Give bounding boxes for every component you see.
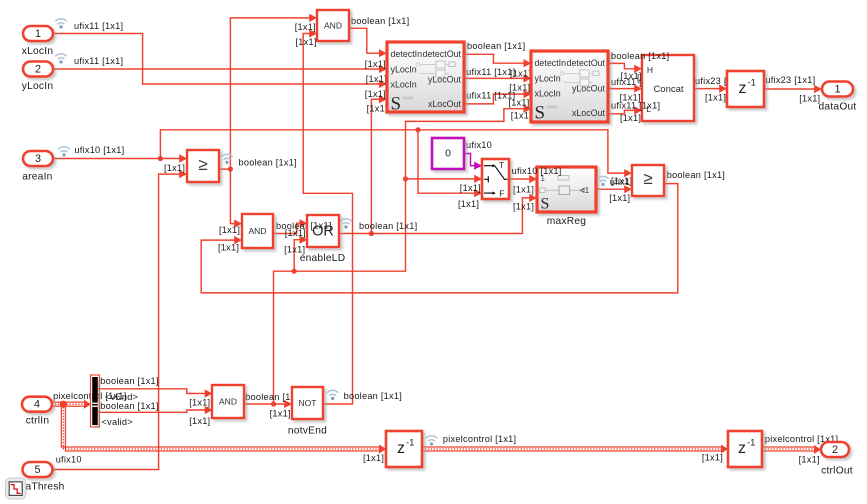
svg-text:H: H <box>647 65 653 75</box>
svg-text:xLocIn: xLocIn <box>22 46 54 57</box>
svg-text:boolean [1x1]: boolean [1x1] <box>100 401 158 411</box>
svg-text:[1x1]: [1x1] <box>513 185 534 195</box>
svg-text:[1x1]: [1x1] <box>511 111 532 121</box>
svg-text:boolean [1x1]: boolean [1x1] <box>467 41 525 51</box>
svg-text:dataOut: dataOut <box>819 102 857 113</box>
svg-text:detectOut: detectOut <box>423 49 462 59</box>
svg-text:ufix23 [1x1]: ufix23 [1x1] <box>765 75 815 85</box>
svg-text:[1x1]: [1x1] <box>219 225 240 235</box>
svg-text:ufix10 [1x1]: ufix10 [1x1] <box>512 166 562 176</box>
svg-text:-1: -1 <box>748 78 756 89</box>
svg-text:ufix11 [1x1]: ufix11 [1x1] <box>466 67 515 77</box>
svg-text:F: F <box>499 189 504 199</box>
svg-text:[1x1]: [1x1] <box>460 183 481 193</box>
svg-text:ctrlIn: ctrlIn <box>26 416 50 427</box>
svg-text:[1x1]: [1x1] <box>510 69 531 79</box>
svg-text:<valid>: <valid> <box>102 417 133 427</box>
svg-text:pixelcontrol [1x1]: pixelcontrol [1x1] <box>443 434 516 444</box>
svg-text:z: z <box>739 80 747 97</box>
svg-text:[1x1]: [1x1] <box>609 193 630 203</box>
svg-text:notvEnd: notvEnd <box>288 426 327 437</box>
svg-text:0: 0 <box>445 148 451 160</box>
svg-text:yLocIn: yLocIn <box>535 74 561 84</box>
svg-text:AND: AND <box>249 226 267 236</box>
svg-text:3: 3 <box>35 153 41 165</box>
svg-text:4: 4 <box>34 399 40 411</box>
svg-text:-1: -1 <box>747 438 755 449</box>
svg-text:[1x1]: [1x1] <box>620 113 641 123</box>
svg-text:-1: -1 <box>406 438 414 449</box>
svg-text:[1x1]: [1x1] <box>189 416 210 426</box>
svg-text:detectIn: detectIn <box>535 58 567 68</box>
svg-text:AND: AND <box>219 397 237 407</box>
svg-text:1: 1 <box>834 84 840 96</box>
svg-text:≥: ≥ <box>198 155 207 174</box>
svg-text:S: S <box>541 196 550 213</box>
svg-text:boolean [1x1]: boolean [1x1] <box>344 391 402 401</box>
svg-text:[1x1]: [1x1] <box>508 98 529 108</box>
svg-text:[1x1]: [1x1] <box>705 93 726 103</box>
svg-text:[1x1]: [1x1] <box>285 228 306 238</box>
svg-text:boolean [1x1]: boolean [1x1] <box>611 51 669 61</box>
svg-text:[1x1]: [1x1] <box>366 74 387 84</box>
svg-text:ufix10 [1x1]: ufix10 [1x1] <box>74 145 124 155</box>
svg-text:2: 2 <box>35 64 41 76</box>
svg-text:enableLD: enableLD <box>300 253 346 264</box>
svg-text:[1x1]: [1x1] <box>311 220 332 230</box>
svg-text:≥: ≥ <box>643 169 652 188</box>
svg-text:[1x1]: [1x1] <box>702 453 723 463</box>
svg-text:NOT: NOT <box>299 398 317 408</box>
svg-text:detectIn: detectIn <box>391 49 423 59</box>
svg-text:maxReg: maxReg <box>547 216 587 227</box>
svg-text:[1x1]: [1x1] <box>189 398 210 408</box>
svg-text:z: z <box>738 440 746 457</box>
svg-text:boolean [1x1]: boolean [1x1] <box>239 158 297 168</box>
svg-text:[1x1]: [1x1] <box>365 89 386 99</box>
svg-text:[1x1]: [1x1] <box>164 163 185 173</box>
svg-text:yLocIn: yLocIn <box>391 65 417 75</box>
svg-text:[1x1]: [1x1] <box>611 176 632 186</box>
svg-text:1: 1 <box>585 186 590 195</box>
svg-text:ufix11 [1x1]: ufix11 [1x1] <box>74 21 123 31</box>
svg-text:boolean [1x1]: boolean [1x1] <box>100 376 158 386</box>
svg-text:2: 2 <box>832 444 838 456</box>
svg-text:[1x1]: [1x1] <box>367 104 388 114</box>
svg-text:[1x1]: [1x1] <box>363 453 384 463</box>
svg-text:detectOut: detectOut <box>567 58 606 68</box>
svg-text:z: z <box>397 440 405 457</box>
svg-text:S: S <box>391 94 402 115</box>
svg-text:ufix10: ufix10 <box>56 454 82 464</box>
svg-text:xLocIn: xLocIn <box>391 80 417 90</box>
svg-text:areaIn: areaIn <box>22 172 52 183</box>
svg-text:boolean [1x1]: boolean [1x1] <box>667 170 725 180</box>
svg-text:[1x1]: [1x1] <box>513 202 534 212</box>
svg-text:[1x1]: [1x1] <box>218 243 239 253</box>
svg-text:Concat: Concat <box>653 84 683 95</box>
svg-text:ufix11 [1x1]: ufix11 [1x1] <box>74 56 123 66</box>
svg-text:5: 5 <box>34 464 40 476</box>
svg-text:[1x1]: [1x1] <box>799 94 820 104</box>
svg-text:1: 1 <box>35 28 41 40</box>
svg-text:xLocOut: xLocOut <box>572 108 606 118</box>
svg-text:boolean [1x1]: boolean [1x1] <box>351 16 409 26</box>
svg-text:xLocIn: xLocIn <box>535 89 561 99</box>
svg-text:xLocOut: xLocOut <box>428 99 462 109</box>
svg-text:AND: AND <box>324 21 342 31</box>
svg-text:ufix10: ufix10 <box>466 140 492 150</box>
svg-text:[1x1]: [1x1] <box>458 199 479 209</box>
svg-text:[1x1]: [1x1] <box>365 59 386 69</box>
svg-text:[1x1]: [1x1] <box>270 408 291 418</box>
svg-text:ufix11 [1x1]: ufix11 [1x1] <box>611 101 660 111</box>
svg-text:[1x1]: [1x1] <box>296 37 317 47</box>
svg-text:[1x1]: [1x1] <box>799 455 820 465</box>
svg-text:yLocIn: yLocIn <box>22 81 54 92</box>
svg-text:S: S <box>535 103 546 124</box>
svg-text:[1x1]: [1x1] <box>295 22 316 32</box>
svg-text:ctrlOut: ctrlOut <box>821 466 853 477</box>
svg-text:T: T <box>499 160 504 170</box>
svg-text:boolean [1x1]: boolean [1x1] <box>359 221 417 231</box>
